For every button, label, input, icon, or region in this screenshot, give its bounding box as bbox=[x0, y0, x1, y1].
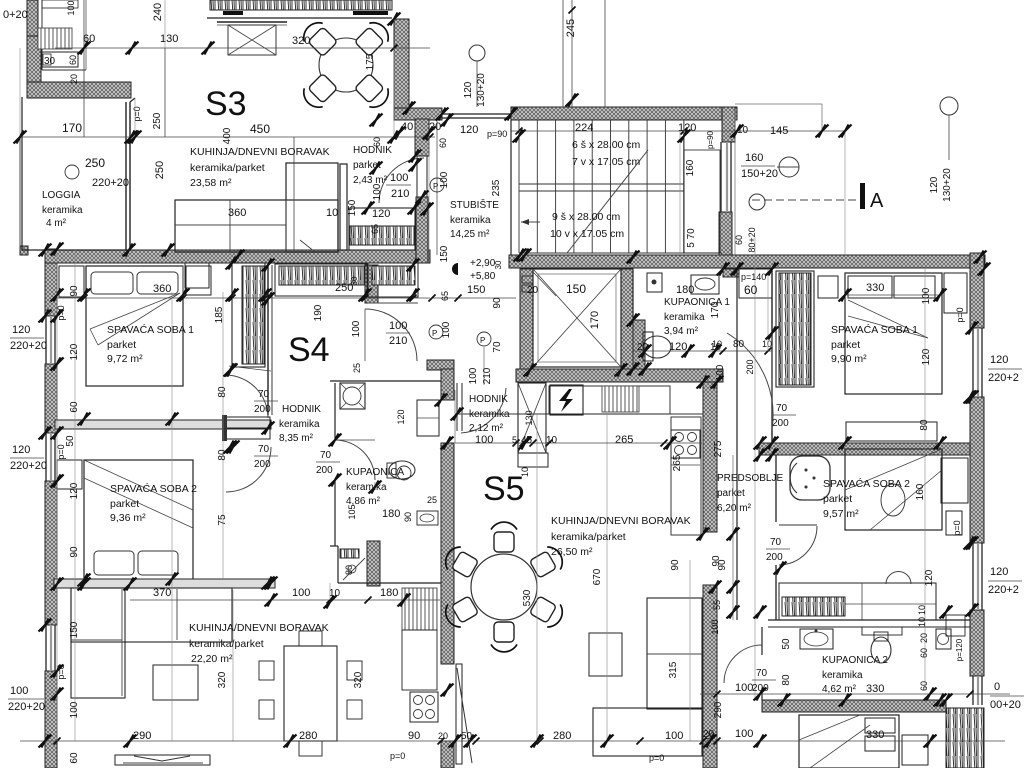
svg-text:20: 20 bbox=[69, 74, 79, 84]
svg-text:370: 370 bbox=[153, 587, 171, 599]
svg-text:S3: S3 bbox=[205, 85, 247, 123]
svg-text:p=0: p=0 bbox=[952, 520, 962, 535]
svg-text:320: 320 bbox=[217, 671, 228, 688]
svg-text:170: 170 bbox=[710, 301, 721, 318]
svg-text:200: 200 bbox=[254, 404, 271, 415]
svg-text:A: A bbox=[870, 190, 884, 212]
svg-text:keramika: keramika bbox=[346, 482, 387, 493]
svg-text:130+20: 130+20 bbox=[942, 168, 953, 202]
svg-text:130: 130 bbox=[160, 33, 178, 45]
svg-text:80: 80 bbox=[217, 386, 228, 398]
svg-text:100: 100 bbox=[921, 287, 932, 304]
svg-text:90: 90 bbox=[408, 730, 420, 742]
svg-text:220+20: 220+20 bbox=[8, 701, 45, 713]
svg-text:KUPAONICA 2: KUPAONICA 2 bbox=[822, 655, 888, 666]
svg-text:120: 120 bbox=[12, 324, 30, 336]
svg-text:P: P bbox=[480, 336, 485, 345]
svg-text:KUHINJA/DNEVNI BORAVAK: KUHINJA/DNEVNI BORAVAK bbox=[551, 515, 691, 527]
svg-text:200: 200 bbox=[772, 418, 789, 429]
svg-text:130+20: 130+20 bbox=[476, 73, 487, 107]
svg-text:keramika: keramika bbox=[822, 670, 863, 681]
svg-text:80+20: 80+20 bbox=[747, 227, 757, 252]
svg-text:175: 175 bbox=[365, 53, 376, 70]
svg-text:60: 60 bbox=[68, 55, 78, 65]
svg-text:220+2: 220+2 bbox=[988, 372, 1019, 384]
svg-text:keramika: keramika bbox=[664, 312, 705, 323]
svg-text:150: 150 bbox=[467, 284, 485, 296]
svg-text:6,20 m²: 6,20 m² bbox=[717, 503, 752, 514]
svg-text:100: 100 bbox=[66, 0, 76, 15]
svg-text:PREDSOBLJE: PREDSOBLJE bbox=[717, 473, 783, 484]
svg-text:9,90 m²: 9,90 m² bbox=[831, 353, 867, 365]
svg-text:70: 70 bbox=[492, 341, 503, 353]
svg-text:6 š x 28.00 cm: 6 š x 28.00 cm bbox=[572, 139, 641, 151]
svg-text:SPAVAĆA SOBA 1: SPAVAĆA SOBA 1 bbox=[831, 323, 918, 336]
svg-text:7 v x 17.05 cm: 7 v x 17.05 cm bbox=[572, 156, 641, 168]
svg-text:26,50 m²: 26,50 m² bbox=[551, 546, 593, 558]
svg-text:8,35 m²: 8,35 m² bbox=[279, 433, 314, 444]
svg-text:P: P bbox=[433, 182, 438, 191]
svg-text:160: 160 bbox=[685, 159, 696, 176]
svg-text:P: P bbox=[432, 329, 437, 338]
svg-text:KUHINJA/DNEVNI BORAVAK: KUHINJA/DNEVNI BORAVAK bbox=[190, 146, 330, 158]
svg-text:keramika: keramika bbox=[42, 205, 83, 216]
svg-text:10 v x 17.05 cm: 10 v x 17.05 cm bbox=[550, 228, 624, 240]
svg-text:70: 70 bbox=[756, 668, 768, 679]
svg-text:210: 210 bbox=[391, 188, 409, 200]
svg-text:90: 90 bbox=[717, 559, 728, 571]
svg-text:80: 80 bbox=[919, 419, 930, 431]
svg-text:160: 160 bbox=[745, 152, 763, 164]
svg-text:120: 120 bbox=[924, 569, 935, 586]
svg-text:keramika: keramika bbox=[469, 409, 510, 420]
svg-text:parket: parket bbox=[107, 339, 136, 351]
svg-text:HODNIK: HODNIK bbox=[282, 404, 321, 415]
svg-text:80: 80 bbox=[344, 565, 354, 575]
svg-text:170: 170 bbox=[589, 311, 601, 329]
svg-text:100: 100 bbox=[439, 171, 450, 188]
svg-text:120: 120 bbox=[990, 354, 1008, 366]
svg-text:90: 90 bbox=[492, 297, 503, 309]
svg-text:180: 180 bbox=[676, 284, 694, 296]
svg-text:20: 20 bbox=[527, 285, 539, 296]
svg-text:keramika: keramika bbox=[450, 215, 491, 226]
svg-text:9 š x 28.00 cm: 9 š x 28.00 cm bbox=[552, 211, 621, 223]
svg-text:p=140: p=140 bbox=[741, 272, 766, 282]
svg-text:65: 65 bbox=[370, 224, 380, 234]
svg-text:220+20: 220+20 bbox=[92, 177, 129, 189]
svg-text:120: 120 bbox=[372, 208, 390, 220]
svg-text:200: 200 bbox=[316, 465, 333, 476]
svg-text:60: 60 bbox=[744, 283, 758, 297]
svg-text:160: 160 bbox=[915, 483, 926, 500]
svg-text:330: 330 bbox=[866, 683, 884, 695]
svg-text:100: 100 bbox=[735, 682, 753, 694]
svg-text:120: 120 bbox=[921, 348, 932, 365]
svg-text:120: 120 bbox=[12, 444, 30, 456]
svg-text:30: 30 bbox=[44, 56, 56, 67]
svg-text:120: 120 bbox=[69, 482, 80, 499]
svg-text:245: 245 bbox=[565, 19, 577, 37]
svg-text:150: 150 bbox=[439, 245, 450, 262]
svg-text:9,72 m²: 9,72 m² bbox=[107, 353, 143, 365]
svg-text:120: 120 bbox=[990, 566, 1008, 578]
svg-text:130: 130 bbox=[524, 410, 534, 425]
svg-text:parket: parket bbox=[823, 493, 852, 505]
svg-text:0: 0 bbox=[994, 681, 1000, 693]
svg-text:70: 70 bbox=[320, 450, 332, 461]
svg-text:265: 265 bbox=[672, 454, 683, 471]
svg-text:20: 20 bbox=[919, 633, 929, 643]
svg-text:120: 120 bbox=[460, 124, 478, 136]
svg-text:320: 320 bbox=[353, 671, 364, 688]
svg-text:3,94 m²: 3,94 m² bbox=[664, 326, 699, 337]
svg-text:100: 100 bbox=[292, 587, 310, 599]
svg-text:00+20: 00+20 bbox=[990, 699, 1021, 711]
svg-text:25: 25 bbox=[427, 495, 437, 505]
svg-text:60: 60 bbox=[919, 648, 929, 658]
svg-text:100: 100 bbox=[665, 730, 683, 742]
svg-text:120: 120 bbox=[69, 343, 80, 360]
svg-text:180: 180 bbox=[382, 508, 400, 520]
svg-text:185: 185 bbox=[214, 306, 225, 323]
svg-text:280: 280 bbox=[553, 730, 571, 742]
svg-text:10: 10 bbox=[520, 467, 530, 477]
svg-text:360: 360 bbox=[228, 207, 246, 219]
svg-text:55: 55 bbox=[712, 600, 722, 610]
svg-text:30: 30 bbox=[350, 276, 359, 285]
svg-text:120: 120 bbox=[396, 409, 406, 424]
svg-text:p=90: p=90 bbox=[487, 129, 507, 139]
svg-text:240: 240 bbox=[152, 3, 164, 21]
svg-text:parket: parket bbox=[110, 498, 139, 510]
svg-text:p=0: p=0 bbox=[132, 106, 142, 121]
svg-text:220+20: 220+20 bbox=[10, 460, 47, 472]
svg-text:250: 250 bbox=[154, 161, 166, 179]
svg-text:315: 315 bbox=[668, 661, 679, 678]
svg-text:90: 90 bbox=[69, 285, 80, 297]
svg-text:200: 200 bbox=[254, 459, 271, 470]
svg-text:25: 25 bbox=[352, 363, 362, 373]
svg-text:100: 100 bbox=[10, 685, 28, 697]
svg-text:100: 100 bbox=[390, 172, 408, 184]
svg-text:KUPAONICA: KUPAONICA bbox=[346, 467, 404, 478]
svg-text:150: 150 bbox=[566, 282, 586, 296]
svg-text:275: 275 bbox=[713, 440, 724, 457]
svg-text:220+20: 220+20 bbox=[10, 340, 47, 352]
svg-text:80: 80 bbox=[781, 674, 792, 686]
svg-text:9,36 m²: 9,36 m² bbox=[110, 512, 146, 524]
svg-text:60: 60 bbox=[69, 401, 80, 413]
svg-text:360: 360 bbox=[153, 283, 171, 295]
svg-text:parket: parket bbox=[831, 339, 860, 351]
svg-text:450: 450 bbox=[250, 122, 270, 136]
svg-text:150: 150 bbox=[347, 199, 358, 216]
svg-text:23,58 m²: 23,58 m² bbox=[190, 177, 232, 189]
svg-text:90: 90 bbox=[69, 546, 80, 558]
svg-text:30: 30 bbox=[494, 260, 503, 269]
svg-text:145: 145 bbox=[770, 125, 788, 137]
svg-text:10: 10 bbox=[917, 617, 927, 627]
svg-text:250: 250 bbox=[152, 112, 163, 129]
svg-text:SPAVAĆA SOBA 2: SPAVAĆA SOBA 2 bbox=[110, 482, 197, 495]
svg-text:STUBIŠTE: STUBIŠTE bbox=[450, 198, 499, 211]
svg-text:70: 70 bbox=[258, 389, 270, 400]
svg-text:280: 280 bbox=[299, 730, 317, 742]
svg-text:330: 330 bbox=[866, 282, 884, 294]
svg-text:+2,90: +2,90 bbox=[470, 258, 496, 269]
svg-text:170: 170 bbox=[62, 121, 82, 135]
svg-text:keramika: keramika bbox=[279, 419, 320, 430]
svg-text:p=0: p=0 bbox=[649, 753, 664, 763]
svg-text:65: 65 bbox=[440, 291, 450, 301]
svg-text:60: 60 bbox=[919, 681, 929, 691]
svg-text:290: 290 bbox=[713, 701, 724, 718]
svg-text:0+20: 0+20 bbox=[3, 9, 28, 21]
svg-text:220+2: 220+2 bbox=[988, 584, 1019, 596]
svg-text:100: 100 bbox=[351, 320, 362, 337]
svg-text:10: 10 bbox=[326, 207, 338, 219]
svg-text:320: 320 bbox=[292, 35, 310, 47]
svg-text:100: 100 bbox=[710, 619, 720, 634]
svg-text:60: 60 bbox=[372, 137, 382, 147]
svg-text:210: 210 bbox=[482, 367, 493, 384]
svg-text:p=0: p=0 bbox=[56, 444, 66, 459]
svg-text:22,20 m²: 22,20 m² bbox=[191, 653, 233, 665]
svg-text:100: 100 bbox=[735, 728, 753, 740]
svg-text:10: 10 bbox=[917, 605, 927, 615]
svg-text:2,12 m²: 2,12 m² bbox=[469, 423, 504, 434]
svg-text:670: 670 bbox=[592, 568, 603, 585]
svg-text:100: 100 bbox=[372, 183, 383, 200]
svg-text:4,62 m²: 4,62 m² bbox=[822, 684, 857, 695]
svg-text:parket: parket bbox=[717, 488, 745, 499]
svg-text:400: 400 bbox=[222, 127, 233, 144]
svg-text:50: 50 bbox=[781, 638, 792, 650]
svg-text:60: 60 bbox=[734, 235, 744, 245]
svg-text:100: 100 bbox=[389, 320, 407, 332]
svg-text:5 70: 5 70 bbox=[686, 228, 697, 248]
svg-text:210: 210 bbox=[389, 335, 407, 347]
svg-text:KUHINJA/DNEVNI BORAVAK: KUHINJA/DNEVNI BORAVAK bbox=[189, 622, 329, 634]
svg-text:SPAVAĆA SOBA 1: SPAVAĆA SOBA 1 bbox=[107, 323, 194, 336]
svg-text:p=120: p=120 bbox=[955, 638, 964, 661]
svg-text:200: 200 bbox=[745, 359, 755, 374]
svg-text:60: 60 bbox=[69, 752, 80, 764]
svg-text:100: 100 bbox=[468, 367, 479, 384]
svg-text:120: 120 bbox=[929, 176, 940, 193]
svg-text:330: 330 bbox=[866, 729, 884, 741]
svg-text:70: 70 bbox=[776, 403, 788, 414]
svg-text:SPAVAĆA SOBA 2: SPAVAĆA SOBA 2 bbox=[823, 477, 910, 490]
svg-text:50: 50 bbox=[65, 435, 76, 447]
svg-text:keramika/parket: keramika/parket bbox=[189, 638, 264, 650]
svg-text:80: 80 bbox=[733, 339, 745, 350]
svg-text:200: 200 bbox=[766, 552, 783, 563]
svg-text:75: 75 bbox=[217, 514, 228, 526]
svg-text:14,25 m²: 14,25 m² bbox=[450, 229, 490, 240]
svg-text:265: 265 bbox=[615, 434, 633, 446]
svg-text:4 m²: 4 m² bbox=[46, 218, 67, 229]
svg-text:20: 20 bbox=[438, 731, 448, 741]
svg-text:+5,80: +5,80 bbox=[470, 271, 496, 282]
svg-text:250: 250 bbox=[85, 156, 105, 170]
svg-text:keramika/parket: keramika/parket bbox=[551, 531, 626, 543]
svg-text:530: 530 bbox=[522, 589, 533, 606]
svg-text:9,57 m²: 9,57 m² bbox=[823, 508, 859, 520]
svg-text:70: 70 bbox=[258, 444, 270, 455]
svg-text:190: 190 bbox=[313, 304, 324, 321]
svg-text:LOGGIA: LOGGIA bbox=[42, 190, 81, 201]
svg-text:HODNIK: HODNIK bbox=[469, 394, 508, 405]
svg-text:150+20: 150+20 bbox=[741, 168, 778, 180]
svg-text:p=0: p=0 bbox=[955, 307, 965, 322]
svg-text:100: 100 bbox=[69, 701, 80, 718]
svg-text:150: 150 bbox=[69, 621, 80, 638]
svg-text:90: 90 bbox=[403, 512, 413, 522]
svg-text:p=0: p=0 bbox=[390, 751, 405, 761]
svg-text:120: 120 bbox=[463, 81, 474, 98]
svg-text:224: 224 bbox=[575, 122, 593, 134]
svg-text:235: 235 bbox=[491, 179, 502, 196]
svg-text:100: 100 bbox=[475, 434, 493, 446]
svg-text:keramika/parket: keramika/parket bbox=[190, 162, 265, 174]
svg-text:S4: S4 bbox=[288, 331, 330, 369]
svg-text:S5: S5 bbox=[483, 470, 525, 508]
svg-text:90: 90 bbox=[670, 559, 681, 571]
svg-text:180: 180 bbox=[380, 587, 398, 599]
svg-text:60: 60 bbox=[438, 138, 448, 148]
svg-text:105: 105 bbox=[347, 504, 357, 519]
svg-text:p=90: p=90 bbox=[706, 130, 715, 149]
svg-text:70: 70 bbox=[770, 537, 782, 548]
